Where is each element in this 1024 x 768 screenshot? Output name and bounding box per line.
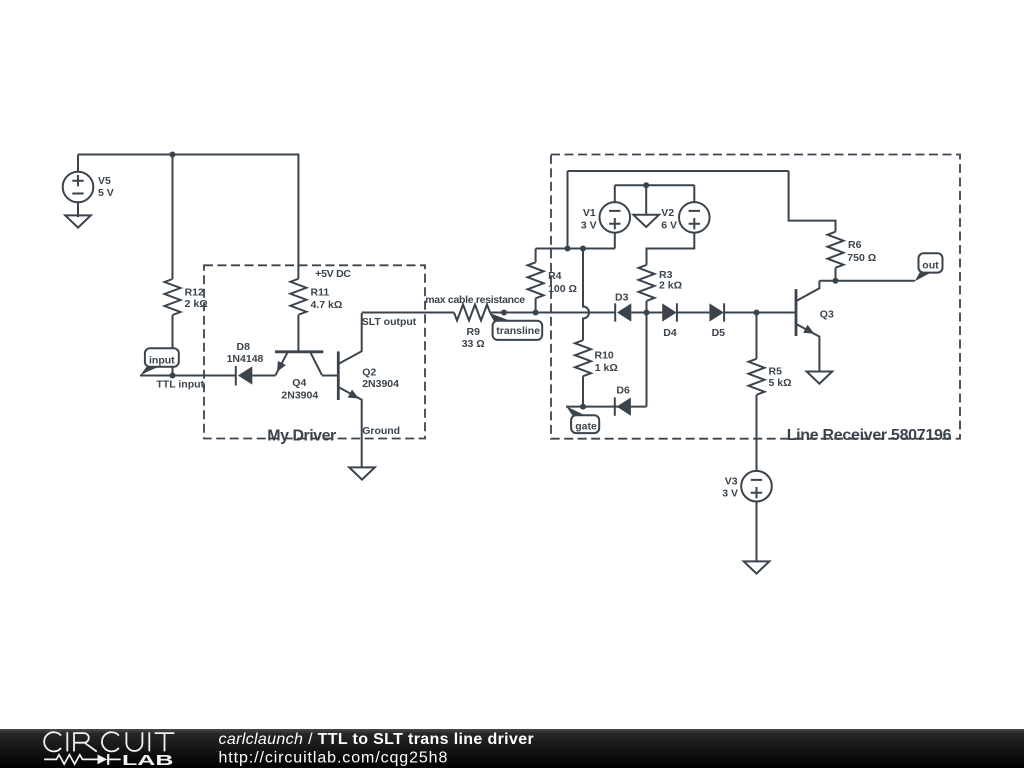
footer logo CIRCUIT: [44, 732, 174, 751]
transistor Q4 2N3904: [275, 352, 323, 402]
svg-text:R9: R9: [467, 326, 481, 338]
node junction at top rail and R12: [170, 152, 176, 158]
label SLT output: [362, 316, 417, 328]
resistor R6 750 Ω: [828, 232, 877, 281]
svg-text:D8: D8: [237, 341, 251, 353]
svg-text:33 Ω: 33 Ω: [462, 338, 485, 350]
wire TTL input to D8: [140, 375, 236, 377]
resistor R10 1 kΩ: [575, 340, 618, 406]
ground below V5: [65, 215, 91, 227]
resistor R9 33 Ω: [454, 305, 490, 351]
node junction R12 on TTL wire: [170, 373, 176, 379]
ground below V3: [744, 561, 770, 573]
wire R11 bottom lead to Q4 base: [297, 315, 299, 352]
wire receiver top rail: [568, 170, 789, 172]
node junction at x583: [580, 246, 586, 252]
node flag gate: [566, 406, 599, 433]
ground below Q2: [349, 467, 375, 479]
resistor R12 2 kΩ: [165, 279, 208, 315]
wire collector row to out: [819, 280, 915, 282]
resistor R5 5 kΩ: [749, 313, 792, 471]
svg-text:3 V: 3 V: [722, 487, 738, 499]
svg-text:R12: R12: [185, 286, 204, 298]
svg-text:My Driver: My Driver: [267, 427, 336, 444]
svg-text:http://circuitlab.com/cqg25h8: http://circuitlab.com/cqg25h8: [219, 749, 449, 766]
diode D6: [615, 384, 631, 415]
label max cable resistance: [425, 294, 525, 306]
svg-text:1N4148: 1N4148: [227, 353, 264, 365]
node junction R6 bottom: [833, 278, 839, 284]
resistor R3 2 kΩ: [639, 265, 683, 313]
footer bar: [0, 729, 1024, 768]
svg-text:750 Ω: 750 Ω: [847, 252, 876, 264]
footer title line: [219, 731, 535, 748]
dashed box My Driver: [204, 265, 425, 444]
label +5V DC: [315, 268, 351, 280]
wire R4 top to V1 bottom: [536, 248, 615, 250]
svg-text:V5: V5: [98, 175, 111, 187]
node junction R5 top: [754, 310, 760, 316]
wire Q4 collector to Q2 base: [322, 375, 338, 377]
svg-text:R5: R5: [769, 366, 783, 378]
svg-text:4.7 kΩ: 4.7 kΩ: [311, 299, 343, 311]
label TTL input: [156, 378, 204, 390]
wire left riser to top rail: [567, 171, 569, 249]
wire riser down with hop to R10: [583, 249, 589, 341]
label Ground: [362, 425, 400, 437]
diode D3: [615, 291, 631, 321]
diode D4: [662, 303, 677, 339]
voltage source V5: [63, 155, 114, 218]
svg-text:100 Ω: 100 Ω: [548, 283, 577, 295]
wire SLT output to R9: [362, 312, 454, 314]
svg-text:Q2: Q2: [362, 366, 376, 378]
wire gate row: [566, 406, 647, 408]
voltage source V2 6V: [647, 185, 710, 265]
node junction R3 bottom on diode wire: [644, 310, 650, 316]
node junction R10 bottom: [580, 404, 586, 410]
svg-text:TTL input: TTL input: [156, 378, 204, 390]
wire D4 to D5: [677, 312, 710, 314]
svg-text:R11: R11: [311, 287, 330, 299]
wire D6 riser to diode row: [646, 313, 648, 407]
wire R12 bottom lead: [172, 315, 174, 376]
node flag transline: [489, 310, 542, 340]
node flag out: [915, 253, 943, 281]
footer url line: [219, 749, 449, 766]
svg-text:LAB: LAB: [122, 752, 174, 768]
node junction at x567: [565, 246, 571, 252]
node flag input: [140, 348, 179, 375]
svg-text:transline: transline: [496, 325, 540, 337]
resistor R11 4.7 kΩ: [290, 279, 342, 315]
svg-text:6 V: 6 V: [661, 219, 677, 231]
svg-text:V2: V2: [661, 207, 674, 219]
svg-text:D5: D5: [712, 327, 726, 339]
svg-text:2N3904: 2N3904: [281, 390, 318, 402]
svg-text:5 V: 5 V: [98, 187, 114, 199]
footer logo resistor-diode squiggle: [44, 754, 121, 765]
svg-text:D6: D6: [616, 384, 630, 396]
wire R9 to D3: [490, 312, 615, 314]
transistor Q2 2N3904: [338, 313, 399, 468]
wire top rail elbow to R6: [789, 171, 836, 232]
svg-text:R6: R6: [848, 239, 862, 251]
transistor Q3: [796, 281, 834, 372]
footer logo LAB: [122, 752, 174, 768]
ground below Q3: [807, 372, 833, 384]
diode D5: [709, 303, 725, 339]
svg-text:gate: gate: [575, 421, 597, 433]
svg-text:D3: D3: [615, 291, 629, 303]
wire D3 to D4: [631, 312, 662, 314]
wire D8 to Q4 emitter: [252, 375, 275, 377]
resistor R4 100 Ω: [528, 249, 577, 313]
svg-text:+5V DC: +5V DC: [315, 268, 351, 280]
diode D8 1N4148: [227, 341, 264, 385]
svg-text:input: input: [149, 354, 175, 366]
svg-text:Q3: Q3: [820, 308, 834, 320]
wire D5 to Q3 base: [724, 312, 796, 314]
svg-text:D4: D4: [663, 327, 677, 339]
voltage source V1 3V: [581, 185, 630, 248]
svg-text:5 kΩ: 5 kΩ: [769, 377, 792, 389]
svg-text:Line Receiver 5807196: Line Receiver 5807196: [787, 427, 952, 444]
node junction R4 bottom: [533, 310, 539, 316]
svg-text:1 kΩ: 1 kΩ: [595, 362, 618, 374]
svg-text:carlclaunch / TTL to SLT trans: carlclaunch / TTL to SLT trans line driv…: [219, 731, 535, 748]
svg-text:V1: V1: [583, 207, 596, 219]
node junction mid top wire: [643, 182, 649, 188]
voltage source V3 3V: [722, 471, 772, 562]
wire V1 top to V2 top: [615, 184, 695, 186]
ground between V1 and V2: [633, 185, 659, 227]
svg-text:Q4: Q4: [292, 377, 306, 389]
svg-text:V3: V3: [725, 475, 738, 487]
svg-text:2N3904: 2N3904: [362, 378, 399, 390]
svg-text:R10: R10: [595, 349, 614, 361]
svg-text:SLT output: SLT output: [362, 316, 417, 328]
svg-text:3 V: 3 V: [581, 219, 597, 231]
svg-text:Ground: Ground: [362, 425, 400, 437]
svg-text:2 kΩ: 2 kΩ: [659, 280, 682, 292]
wire top rail from V5: [78, 154, 299, 156]
wire R12 top lead: [172, 155, 174, 280]
svg-text:out: out: [922, 259, 939, 271]
dashed box Line Receiver 5807196: [551, 155, 960, 445]
wire R11 top lead: [297, 155, 299, 279]
